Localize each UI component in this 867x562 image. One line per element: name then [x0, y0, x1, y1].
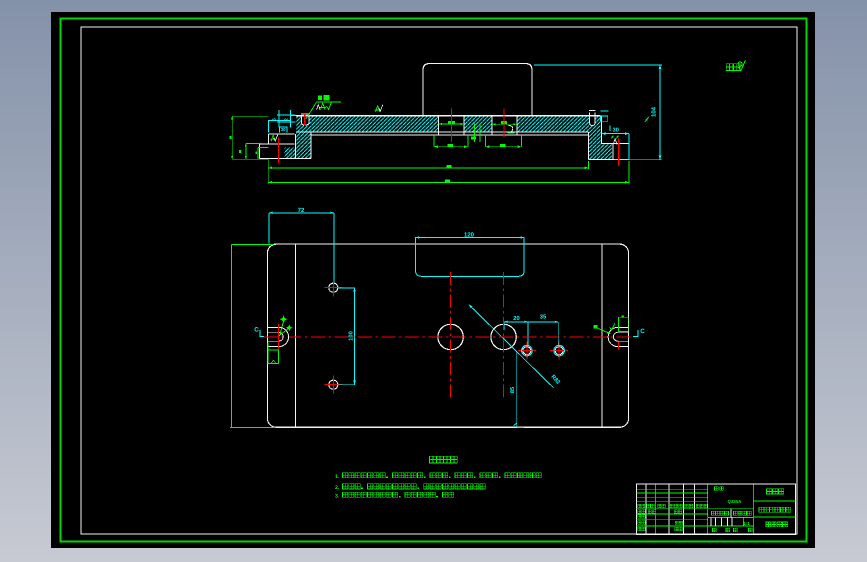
- svg-text:30: 30: [613, 128, 619, 134]
- svg-text:1:1: 1:1: [743, 521, 750, 526]
- svg-text:2: 2: [284, 118, 289, 121]
- svg-text:20: 20: [513, 315, 519, 322]
- svg-text:72: 72: [298, 207, 305, 214]
- svg-text:30: 30: [281, 127, 286, 132]
- svg-text:1.: 1.: [335, 474, 340, 480]
- svg-text:3.: 3.: [335, 494, 340, 500]
- svg-text:120: 120: [464, 231, 475, 238]
- svg-text:100: 100: [347, 331, 354, 341]
- svg-text:85: 85: [510, 387, 516, 393]
- svg-text:35: 35: [540, 314, 547, 321]
- svg-text:Q235A: Q235A: [728, 499, 743, 504]
- svg-text:6: 6: [271, 118, 276, 121]
- svg-text:C: C: [640, 328, 645, 335]
- svg-text:C: C: [254, 327, 259, 334]
- svg-text:2.: 2.: [335, 485, 340, 491]
- svg-text:104: 104: [651, 106, 658, 117]
